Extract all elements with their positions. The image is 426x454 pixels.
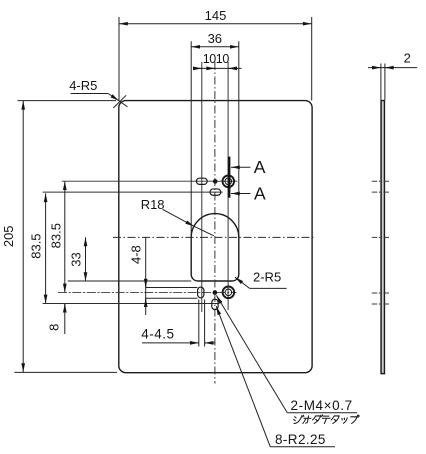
side view hole centerline ticks — [372, 181, 391, 304]
svg-text:36: 36 — [208, 31, 222, 46]
dimension 2 line side view — [368, 67, 417, 69]
svg-text:4-8: 4-8 — [129, 245, 144, 264]
leader 2-R5 — [235, 277, 287, 288]
M4 tapped hole bottom outer — [223, 287, 235, 299]
glyph ka — [303, 416, 311, 423]
svg-text:205: 205 — [1, 225, 16, 247]
extension line 33 bottom — [68, 280, 192, 282]
extension line 2 left — [380, 64, 382, 101]
tapped hole center mark bottom — [213, 290, 218, 295]
svg-text:145: 145 — [205, 8, 227, 23]
dimension 8 line — [64, 304, 66, 334]
svg-text:4-R5: 4-R5 — [69, 78, 97, 93]
glyph small tsu — [341, 418, 347, 423]
svg-text:A: A — [254, 157, 266, 177]
glyph ta — [331, 416, 339, 424]
leader 8-R2.25 — [216, 306, 335, 447]
corner cross mark — [113, 95, 126, 108]
svg-text:33: 33 — [68, 252, 83, 266]
hole column line right — [227, 62, 229, 310]
dimension 205 line — [22, 101, 24, 372]
tapped hole center mark top — [213, 179, 218, 184]
dimension 83.5 second line — [64, 181, 66, 292]
svg-text:2-M4×0.7: 2-M4×0.7 — [291, 398, 353, 413]
leader R18 — [163, 209, 214, 236]
dimension 145 line — [14, 17, 417, 372]
dimension 83.5 first line — [45, 193, 47, 303]
extension line 145 right — [311, 17, 313, 100]
slot hole top-center horizontal obround — [210, 189, 221, 195]
row centerline top2 — [43, 191, 223, 193]
svg-text:83.5: 83.5 — [49, 223, 64, 248]
svg-text:83.5: 83.5 — [29, 233, 44, 258]
text katakana jikadate tap — [293, 415, 359, 424]
extension line 4-8 top — [146, 287, 198, 289]
leader 4-R5 — [71, 94, 128, 108]
svg-text:8: 8 — [47, 324, 62, 331]
M4 tapped hole top outer — [223, 176, 235, 188]
dimension 4-8 line — [145, 237, 147, 315]
svg-text:A: A — [254, 183, 266, 203]
glyph ji — [293, 415, 304, 423]
keyhole cutout R18 — [191, 214, 239, 281]
extension line 36 right — [238, 41, 240, 237]
dimension 36 line — [191, 46, 239, 48]
dimension 10 10 line — [193, 67, 241, 69]
row centerline bottom2 — [43, 303, 219, 305]
plate outline front view — [119, 101, 312, 373]
svg-text:8-R2.25: 8-R2.25 — [275, 432, 326, 447]
extension line 2 right — [384, 64, 386, 101]
vertical centerline — [214, 62, 216, 384]
extension line 205 bottom — [14, 371, 117, 373]
svg-text:R18: R18 — [141, 197, 165, 212]
side view plate — [380, 101, 385, 374]
glyph da — [312, 415, 323, 424]
extension line 4-8 bottom — [146, 297, 198, 299]
extension line 4-4.5 left — [198, 300, 200, 347]
dimension 33 line — [85, 237, 87, 281]
section line A-A — [229, 157, 250, 198]
slot hole bottom-left vertical obround — [198, 287, 204, 298]
glyph te — [321, 416, 330, 423]
horizontal centerline — [113, 236, 315, 238]
extension line 4-4.5 right — [204, 300, 206, 347]
svg-text:2: 2 — [404, 51, 411, 66]
M4 tapped hole bottom inner — [225, 289, 232, 296]
extension line 145 left — [118, 17, 120, 100]
svg-text:1010: 1010 — [203, 52, 230, 66]
slot hole bottom-center vertical obround — [212, 299, 218, 310]
row centerline bottom1 — [58, 291, 237, 293]
leader 2-M4 tap — [216, 295, 357, 412]
extension line 36 left — [190, 41, 192, 237]
slot hole top-left horizontal obround — [196, 178, 207, 184]
glyph pu — [350, 415, 359, 423]
extension line 205 top — [18, 100, 117, 102]
hole column line left — [201, 62, 203, 312]
row centerline top1 — [62, 180, 238, 182]
M4 tapped hole top inner — [225, 178, 232, 185]
svg-text:4-4.5: 4-4.5 — [141, 326, 174, 341]
dimension 4-4.5 line — [142, 342, 199, 344]
svg-text:2-R5: 2-R5 — [253, 270, 281, 285]
